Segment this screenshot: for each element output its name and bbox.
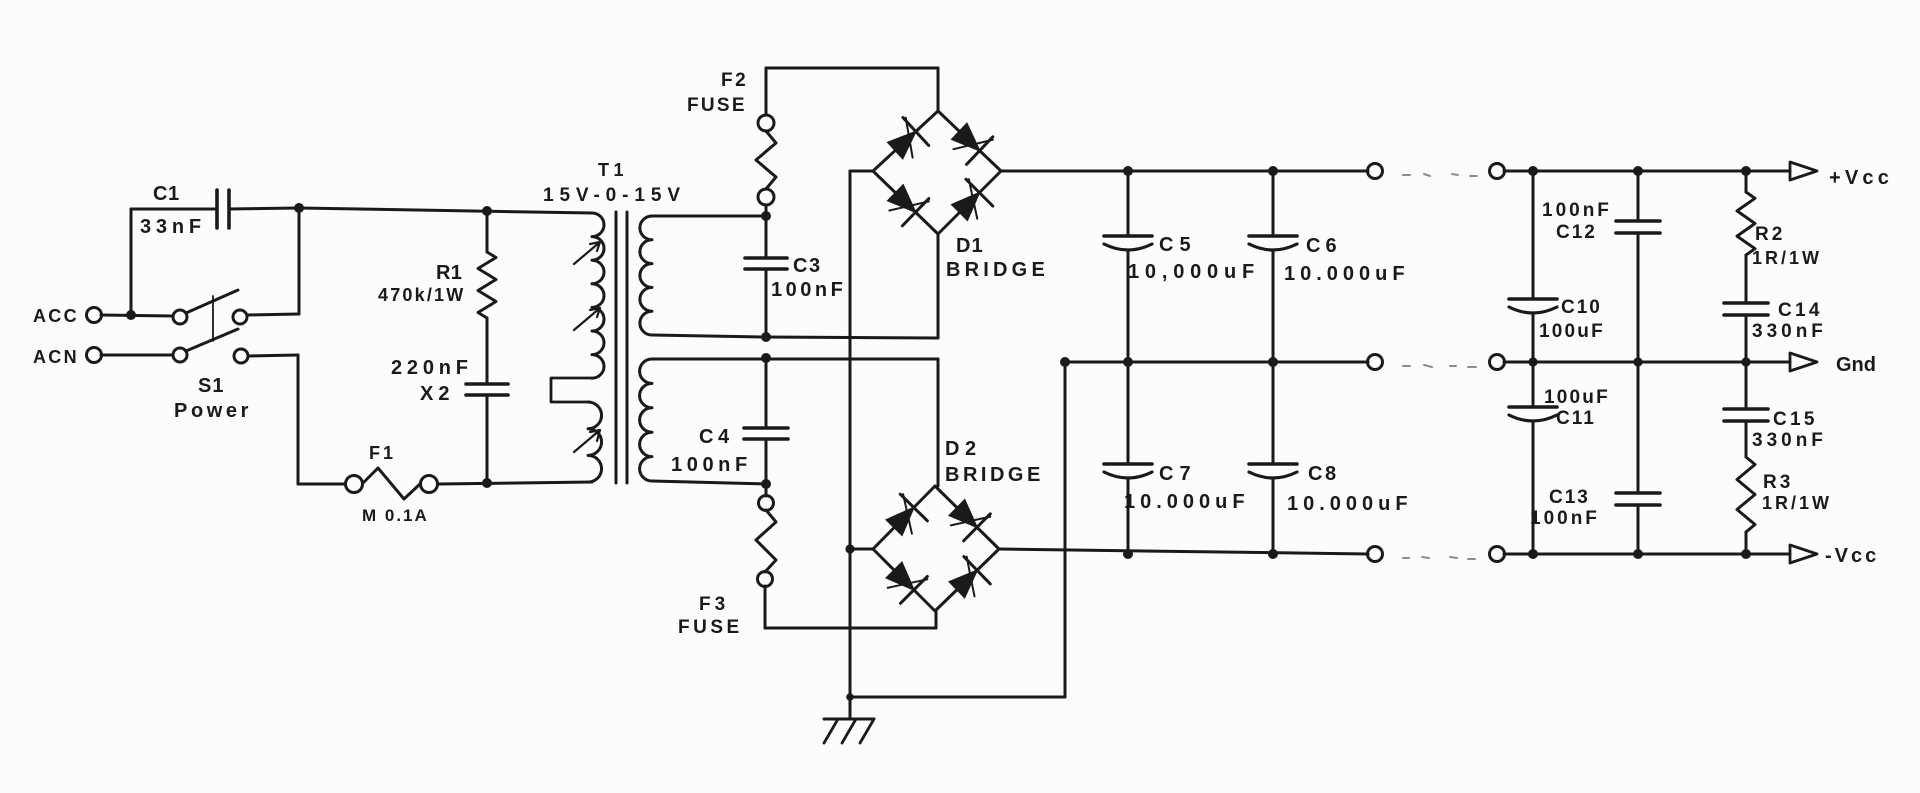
svg-text:Power: Power <box>174 400 252 422</box>
wire AC N to switch <box>101 354 173 357</box>
svg-text:ACN: ACN <box>33 347 79 367</box>
node Gnd output arrow <box>1790 353 1876 376</box>
node junction C1 branch <box>126 310 136 320</box>
wire +V output rail <box>1504 170 1790 173</box>
svg-text:100uF: 100uF <box>1539 321 1605 342</box>
node junction C6 bottom <box>1268 357 1278 367</box>
wire ground bus vertical <box>849 171 852 697</box>
svg-text:15V-0-15V: 15V-0-15V <box>543 185 686 206</box>
switch S1 pole1 <box>173 290 247 324</box>
transformer T1 secondary lower <box>640 359 652 481</box>
svg-text:100nF: 100nF <box>1530 508 1600 529</box>
node junction -V rail x1746 <box>1741 549 1751 559</box>
svg-text:C13: C13 <box>1549 487 1590 508</box>
node AC input terminal N <box>33 347 102 367</box>
node junction R1 bottom <box>482 478 492 488</box>
svg-text:100nF: 100nF <box>1542 200 1612 221</box>
svg-text:D2: D2 <box>945 438 982 460</box>
node junction C3 bottom <box>761 332 771 342</box>
node junction ground bus / D2 <box>845 544 854 553</box>
svg-text:F2: F2 <box>721 70 748 91</box>
svg-text:M 0.1A: M 0.1A <box>362 506 429 525</box>
node junction C7 bottom <box>1123 549 1133 559</box>
svg-text:33nF: 33nF <box>140 216 206 238</box>
svg-text:-Vcc: -Vcc <box>1825 545 1879 567</box>
svg-text:D1: D1 <box>956 235 984 257</box>
capacitor C8 <box>1249 362 1413 554</box>
wire top mains rail <box>299 208 592 213</box>
capacitor C14 <box>1724 300 1827 362</box>
wire D2 positive stub <box>850 548 873 551</box>
wire -V output rail <box>1504 553 1790 556</box>
svg-text:C4: C4 <box>699 426 734 448</box>
ground symbol <box>824 693 874 743</box>
resistor R1 <box>378 211 496 383</box>
wire faint break Gnd <box>1403 365 1476 367</box>
node +Vcc output arrow <box>1790 162 1893 189</box>
node junction C4 top <box>761 353 771 363</box>
svg-text:C6: C6 <box>1306 235 1342 257</box>
svg-text:100uF: 100uF <box>1544 387 1610 408</box>
node junction +V rail x1638 <box>1633 166 1643 176</box>
capacitor C7 <box>1104 362 1250 554</box>
wire AC L to switch <box>101 315 173 316</box>
svg-text:FUSE: FUSE <box>678 617 743 638</box>
svg-text:C15: C15 <box>1773 409 1818 430</box>
svg-text:10.000uF: 10.000uF <box>1284 263 1410 285</box>
node junction ground feed <box>1060 357 1070 367</box>
svg-text:C8: C8 <box>1308 463 1339 485</box>
node junction Gnd rail x1533 <box>1528 357 1537 366</box>
node +V terminal left <box>1368 164 1383 179</box>
node junction C5 top <box>1123 166 1133 176</box>
node junction +V rail x1533 <box>1528 166 1538 176</box>
capacitor 220nF X2 <box>391 357 508 483</box>
wire secondary upper to F2 <box>652 215 766 218</box>
transformer T1 label <box>543 160 686 206</box>
svg-text:100nF: 100nF <box>671 454 752 476</box>
wire F3 bottom rail <box>765 611 936 628</box>
svg-text:R1: R1 <box>436 262 462 284</box>
wire D1 negative stub <box>850 170 873 173</box>
svg-text:T1: T1 <box>598 160 628 180</box>
svg-text:330nF: 330nF <box>1752 430 1827 451</box>
svg-text:C1: C1 <box>153 183 180 205</box>
svg-text:220nF: 220nF <box>391 357 473 379</box>
svg-text:10.000uF: 10.000uF <box>1124 491 1250 513</box>
capacitor C10 <box>1509 171 1605 362</box>
node junction +V rail x1746 <box>1741 166 1751 176</box>
transformer T1 primary arrows <box>574 242 600 452</box>
wire faint break +V <box>1403 174 1477 176</box>
svg-text:F3: F3 <box>699 594 729 615</box>
svg-text:C7: C7 <box>1159 463 1197 485</box>
svg-text:BRIDGE: BRIDGE <box>945 464 1044 486</box>
capacitor C4 <box>671 358 788 484</box>
wire to D1 AC2 <box>937 234 940 338</box>
capacitor C12 <box>1542 171 1660 362</box>
wire F1 to transformer <box>438 482 592 484</box>
wire D1 positive to +V rail <box>1001 170 1368 173</box>
wire secondary lower to D2 <box>652 359 938 486</box>
switch S1 pole2 <box>173 329 248 363</box>
svg-text:1R/1W: 1R/1W <box>1752 248 1822 268</box>
capacitor C5 <box>1104 171 1260 362</box>
node junction top rail / switch <box>294 203 304 213</box>
wire Gnd output rail <box>1504 361 1790 364</box>
svg-text:F1: F1 <box>369 443 396 463</box>
svg-text:X2: X2 <box>420 383 454 405</box>
node junction R1 top <box>482 206 492 216</box>
node -V terminal left <box>1368 547 1383 562</box>
wire C1 left branch <box>130 209 133 315</box>
node junction -V rail x1638 <box>1633 549 1643 559</box>
node junction Gnd rail x1638 <box>1633 357 1642 366</box>
wire F2 top rail <box>766 68 938 111</box>
switch S1 link <box>212 296 214 341</box>
node Gnd terminal left <box>1368 355 1383 370</box>
transformer T1 core <box>616 212 627 483</box>
wire C1 to top node <box>229 208 299 209</box>
svg-text:330nF: 330nF <box>1752 321 1827 342</box>
resistor R3 <box>1737 421 1832 554</box>
wire pole1 to top rail <box>247 208 299 315</box>
capacitor C15 <box>1724 362 1827 451</box>
svg-text:R2: R2 <box>1755 224 1785 245</box>
svg-text:10,000uF: 10,000uF <box>1128 261 1260 283</box>
node junction C4 bottom <box>761 479 771 489</box>
svg-text:1R/1W: 1R/1W <box>1762 493 1832 513</box>
svg-text:FUSE: FUSE <box>687 95 747 116</box>
transformer T1 primary winding <box>551 213 604 482</box>
bridge rectifier D1 <box>873 111 1049 281</box>
node junction C8 bottom <box>1268 549 1278 559</box>
svg-text:10.000uF: 10.000uF <box>1287 493 1413 515</box>
node -Vcc output arrow <box>1790 545 1879 567</box>
node junction F2 / C3 top <box>761 211 771 221</box>
capacitor C11 <box>1509 362 1610 554</box>
node junction C5 bottom <box>1123 357 1133 367</box>
capacitor C6 <box>1249 171 1410 362</box>
svg-text:R3: R3 <box>1763 472 1793 493</box>
svg-text:S1: S1 <box>198 375 224 397</box>
svg-text:100nF: 100nF <box>771 279 846 301</box>
node +V terminal right <box>1490 164 1505 179</box>
fuse F2 <box>687 68 776 216</box>
svg-text:C3: C3 <box>793 255 822 277</box>
wire C1 top left <box>131 208 217 211</box>
capacitor C13 <box>1530 362 1660 554</box>
resistor R2 <box>1737 171 1822 303</box>
wire secondary upper bottom <box>652 335 938 338</box>
node junction -V rail x1533 <box>1528 549 1538 559</box>
node Gnd terminal right <box>1490 355 1505 370</box>
fuse F3 <box>678 484 776 638</box>
svg-text:C10: C10 <box>1561 297 1602 318</box>
node AC input terminal L <box>33 306 102 326</box>
fuse F1 <box>346 443 438 525</box>
transformer T1 secondary upper <box>640 216 652 335</box>
svg-text:Gnd: Gnd <box>1836 354 1876 376</box>
svg-text:C11: C11 <box>1556 408 1596 429</box>
capacitor C3 <box>745 216 846 337</box>
svg-text:C14: C14 <box>1778 300 1823 321</box>
svg-text:ACC: ACC <box>33 306 79 326</box>
wire pole2 down <box>248 355 345 484</box>
wire Gnd mid rail <box>1065 361 1368 364</box>
node -V terminal right <box>1490 547 1505 562</box>
switch S1 label <box>174 375 252 422</box>
wire D2 negative to -V rail <box>999 549 1368 554</box>
svg-text:C5: C5 <box>1159 234 1197 256</box>
svg-text:470k/1W: 470k/1W <box>378 285 465 305</box>
node junction Gnd rail x1746 <box>1741 357 1750 366</box>
wire ground bus to center rail <box>850 362 1065 697</box>
svg-text:BRIDGE: BRIDGE <box>946 259 1049 281</box>
svg-text:+Vcc: +Vcc <box>1829 167 1893 189</box>
svg-text:C12: C12 <box>1556 222 1597 243</box>
wire faint break -V <box>1403 557 1475 559</box>
wire secondary lower bottom <box>652 481 766 484</box>
capacitor C1 <box>140 183 229 238</box>
node junction C6 top <box>1268 166 1278 176</box>
bridge rectifier D2 <box>873 438 1044 611</box>
